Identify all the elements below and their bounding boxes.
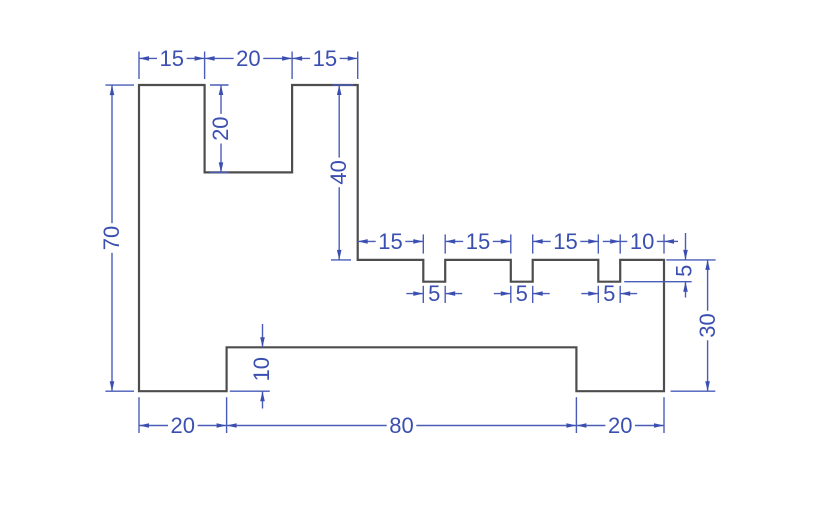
svg-text:10: 10 xyxy=(249,357,274,381)
svg-text:15: 15 xyxy=(160,46,184,71)
svg-text:15: 15 xyxy=(553,229,577,254)
svg-text:80: 80 xyxy=(389,413,413,438)
svg-text:5: 5 xyxy=(672,265,697,277)
svg-text:5: 5 xyxy=(603,281,615,306)
svg-text:20: 20 xyxy=(208,116,233,140)
svg-text:20: 20 xyxy=(608,413,632,438)
svg-text:15: 15 xyxy=(313,46,337,71)
svg-text:5: 5 xyxy=(516,281,528,306)
svg-text:70: 70 xyxy=(99,226,124,250)
svg-text:15: 15 xyxy=(378,229,402,254)
svg-text:20: 20 xyxy=(171,413,195,438)
svg-text:15: 15 xyxy=(466,229,490,254)
svg-text:10: 10 xyxy=(630,229,654,254)
svg-text:30: 30 xyxy=(695,313,720,337)
svg-text:40: 40 xyxy=(326,160,351,184)
svg-text:5: 5 xyxy=(428,281,440,306)
svg-text:20: 20 xyxy=(236,46,260,71)
